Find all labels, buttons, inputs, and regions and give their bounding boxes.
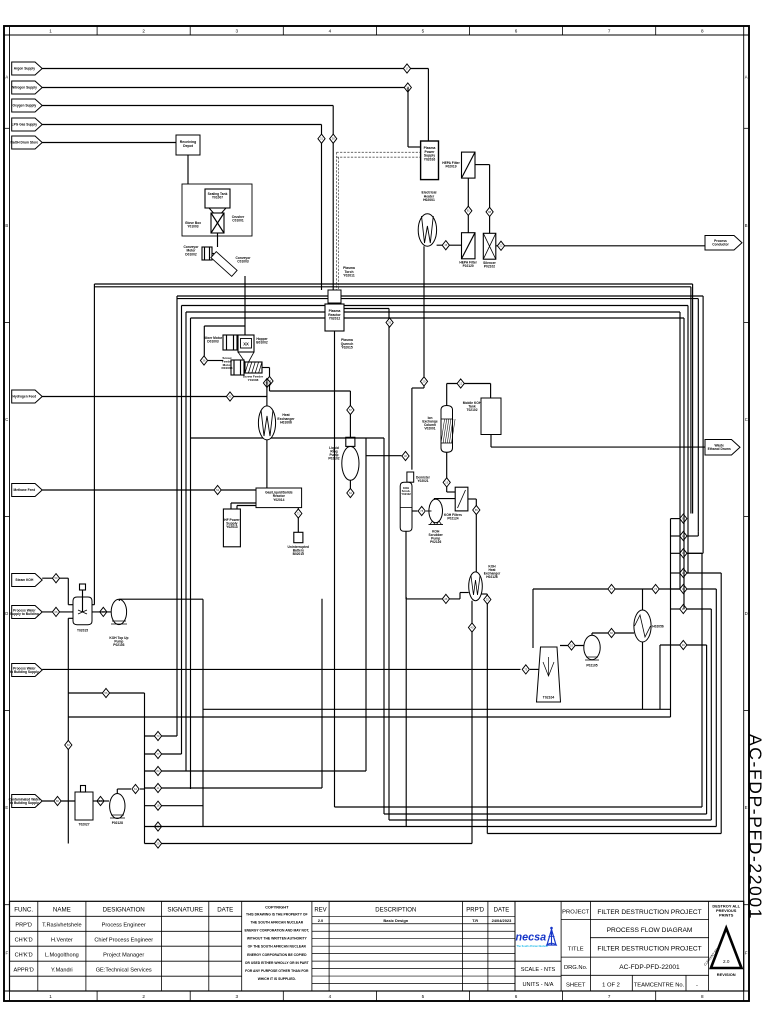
svg-text:C: C bbox=[745, 417, 748, 422]
svg-text:FILTER DESTRUCTION PROJECT: FILTER DESTRUCTION PROJECT bbox=[597, 946, 701, 953]
svg-text:GE:Technical Services: GE:Technical Services bbox=[96, 967, 152, 973]
svg-text:Y02015: Y02015 bbox=[341, 346, 353, 350]
svg-text:SHEET: SHEET bbox=[566, 983, 586, 989]
svg-text:B: B bbox=[5, 223, 8, 228]
svg-text:1: 1 bbox=[49, 994, 52, 999]
svg-text:2: 2 bbox=[142, 28, 145, 33]
svg-text:3: 3 bbox=[235, 994, 238, 999]
svg-text:AC-FDP-PFD-22001: AC-FDP-PFD-22001 bbox=[619, 964, 680, 971]
svg-text:Project Manager: Project Manager bbox=[103, 952, 144, 958]
svg-text:P02124: P02124 bbox=[447, 517, 458, 521]
svg-text:T.R: T.R bbox=[472, 918, 478, 923]
svg-text:THIS DRAWING IS THE PROPERTY O: THIS DRAWING IS THE PROPERTY OF bbox=[246, 913, 308, 917]
svg-text:P02128: P02128 bbox=[112, 821, 123, 825]
svg-text:B01002: B01002 bbox=[256, 341, 268, 345]
svg-text:8: 8 bbox=[701, 28, 704, 33]
svg-text:7: 7 bbox=[608, 28, 611, 33]
svg-text:ENERGY CORPORATION BE COPIED: ENERGY CORPORATION BE COPIED bbox=[247, 953, 307, 957]
svg-text:DATE: DATE bbox=[217, 907, 233, 914]
svg-text:2.0: 2.0 bbox=[318, 918, 324, 923]
svg-text:PRP'D: PRP'D bbox=[15, 923, 32, 929]
svg-text:1 OF 2: 1 OF 2 bbox=[602, 983, 620, 989]
svg-text:7: 7 bbox=[608, 994, 611, 999]
svg-text:4: 4 bbox=[329, 28, 332, 33]
svg-text:WHICH IT IS SUPPLIED.: WHICH IT IS SUPPLIED. bbox=[258, 977, 296, 981]
svg-text:NaOH Drum Store: NaOH Drum Store bbox=[11, 141, 39, 145]
svg-text:WITHOUT THE WRITTEN AUTHORITY: WITHOUT THE WRITTEN AUTHORITY bbox=[247, 937, 308, 941]
svg-text:TITLE: TITLE bbox=[568, 947, 584, 953]
svg-text:F02019: F02019 bbox=[445, 165, 456, 169]
svg-text:3: 3 bbox=[235, 28, 238, 33]
svg-text:SIGNATURE: SIGNATURE bbox=[167, 907, 203, 914]
svg-text:B: B bbox=[745, 223, 748, 228]
svg-text:NAME: NAME bbox=[53, 907, 71, 914]
svg-text:to Building Supply: to Building Supply bbox=[10, 801, 39, 805]
svg-text:T02027: T02027 bbox=[78, 823, 89, 827]
svg-text:TEAMCENTRE No.: TEAMCENTRE No. bbox=[634, 983, 685, 989]
svg-text:Methane Feed: Methane Feed bbox=[14, 488, 36, 492]
svg-text:P02102: P02102 bbox=[328, 457, 339, 461]
svg-text:Y02011: Y02011 bbox=[343, 274, 355, 278]
svg-text:Ethanol Drums: Ethanol Drums bbox=[708, 447, 731, 451]
svg-text:Y02012: Y02012 bbox=[329, 317, 341, 321]
svg-text:SCALE - NTS: SCALE - NTS bbox=[521, 967, 556, 973]
svg-text:PROCESS FLOW DIAGRAM: PROCESS FLOW DIAGRAM bbox=[607, 927, 693, 934]
svg-text:DESCRIPTION: DESCRIPTION bbox=[375, 908, 416, 914]
svg-text:2.0: 2.0 bbox=[723, 959, 730, 964]
svg-text:Y02016: Y02016 bbox=[424, 157, 436, 161]
svg-text:LPG Gas Supply: LPG Gas Supply bbox=[12, 123, 38, 127]
svg-text:AC-FDP-PFD-22001: AC-FDP-PFD-22001 bbox=[746, 734, 766, 920]
svg-text:Hydrogen Feed: Hydrogen Feed bbox=[13, 395, 37, 399]
svg-text:XX: XX bbox=[243, 342, 249, 347]
svg-text:CH'K'D: CH'K'D bbox=[15, 938, 33, 944]
svg-text:Oxygen Supply: Oxygen Supply bbox=[13, 104, 37, 108]
svg-text:PROJECT: PROJECT bbox=[562, 910, 590, 916]
svg-text:Y02021: Y02021 bbox=[417, 479, 428, 483]
svg-text:The South African Nuclear: The South African Nuclear bbox=[517, 945, 548, 948]
svg-text:F: F bbox=[745, 950, 748, 955]
svg-text:Depot: Depot bbox=[183, 144, 194, 148]
svg-text:2: 2 bbox=[142, 994, 145, 999]
svg-text:UNITS - N/A: UNITS - N/A bbox=[522, 982, 553, 988]
svg-text:Supply to Building: Supply to Building bbox=[10, 612, 39, 616]
svg-text:P02102: P02102 bbox=[484, 265, 495, 269]
svg-text:H02056: H02056 bbox=[652, 625, 664, 629]
svg-text:Conductor: Conductor bbox=[712, 243, 729, 247]
svg-text:Process Engineer: Process Engineer bbox=[102, 923, 146, 929]
svg-text:4: 4 bbox=[329, 994, 332, 999]
svg-text:H.Venter: H.Venter bbox=[51, 938, 73, 944]
svg-text:24/04/2023: 24/04/2023 bbox=[492, 918, 513, 923]
svg-text:T02102: T02102 bbox=[466, 408, 477, 412]
svg-text:E: E bbox=[5, 805, 8, 810]
svg-text:H02126: H02126 bbox=[486, 575, 498, 579]
svg-text:-: - bbox=[696, 983, 698, 989]
svg-text:P02103: P02103 bbox=[113, 643, 124, 647]
svg-text:REV: REV bbox=[314, 908, 326, 914]
svg-text:Y.Mandri: Y.Mandri bbox=[51, 967, 73, 973]
svg-text:Y01008: Y01008 bbox=[248, 378, 259, 382]
svg-text:C01001: C01001 bbox=[232, 219, 244, 223]
svg-text:D01003: D01003 bbox=[207, 340, 219, 344]
svg-text:T02104: T02104 bbox=[543, 696, 555, 700]
svg-text:B02015: B02015 bbox=[293, 552, 305, 556]
svg-text:ENERGY CORPORATION AND MAY NOT: ENERGY CORPORATION AND MAY NOT, bbox=[244, 929, 309, 933]
svg-text:5: 5 bbox=[422, 28, 425, 33]
svg-text:DATE: DATE bbox=[494, 908, 510, 914]
svg-text:DRG.No.: DRG.No. bbox=[564, 965, 588, 971]
svg-text:OR USED EITHER WHOLLY OR IN PA: OR USED EITHER WHOLLY OR IN PART bbox=[245, 961, 310, 965]
svg-text:H02001: H02001 bbox=[423, 198, 435, 202]
svg-text:T.Rasivhetshele: T.Rasivhetshele bbox=[42, 923, 82, 929]
svg-text:D01002: D01002 bbox=[185, 252, 197, 256]
svg-text:6: 6 bbox=[515, 28, 518, 33]
svg-text:8: 8 bbox=[701, 994, 704, 999]
svg-text:Nitrogen Supply: Nitrogen Supply bbox=[12, 86, 37, 90]
svg-text:THE SOUTH AFRICAN NUCLEAR: THE SOUTH AFRICAN NUCLEAR bbox=[250, 921, 303, 925]
svg-text:Steam KOH: Steam KOH bbox=[15, 578, 34, 582]
svg-text:6: 6 bbox=[515, 994, 518, 999]
svg-text:V02001: V02001 bbox=[424, 427, 435, 431]
svg-text:FUNC.: FUNC. bbox=[14, 907, 33, 914]
svg-text:1: 1 bbox=[49, 28, 52, 33]
svg-text:C: C bbox=[5, 417, 8, 422]
svg-text:A: A bbox=[5, 75, 8, 80]
svg-text:F02120: F02120 bbox=[463, 264, 474, 268]
svg-text:Y02013: Y02013 bbox=[226, 525, 238, 529]
svg-text:T02015: T02015 bbox=[77, 629, 88, 633]
svg-text:D: D bbox=[745, 611, 748, 616]
svg-text:H01006: H01006 bbox=[280, 421, 292, 425]
svg-text:FILTER DESTRUCTION PROJECT: FILTER DESTRUCTION PROJECT bbox=[597, 909, 701, 916]
svg-text:F: F bbox=[6, 950, 9, 955]
svg-text:C01003: C01003 bbox=[237, 260, 249, 264]
svg-text:PRP'D: PRP'D bbox=[466, 908, 484, 914]
svg-text:P02126: P02126 bbox=[430, 540, 441, 544]
svg-text:L.Mogolthong: L.Mogolthong bbox=[45, 952, 79, 958]
svg-text:DESIGNATION: DESIGNATION bbox=[103, 907, 145, 914]
svg-text:necsa: necsa bbox=[516, 932, 547, 944]
svg-text:to Building Supply: to Building Supply bbox=[10, 670, 39, 674]
svg-text:Y02014: Y02014 bbox=[273, 498, 284, 502]
svg-text:Chief Process Engineer: Chief Process Engineer bbox=[94, 938, 153, 944]
svg-text:FOR ANY PURPOSE OTHER THAN FOR: FOR ANY PURPOSE OTHER THAN FOR bbox=[245, 969, 309, 973]
svg-text:REVISION: REVISION bbox=[717, 972, 736, 977]
svg-text:COPYRIGHT: COPYRIGHT bbox=[265, 905, 289, 910]
svg-text:A: A bbox=[745, 75, 748, 80]
svg-text:D: D bbox=[5, 611, 8, 616]
svg-text:Argon Supply: Argon Supply bbox=[14, 67, 35, 71]
svg-text:5: 5 bbox=[422, 994, 425, 999]
svg-text:Y02102: Y02102 bbox=[401, 492, 411, 496]
svg-text:OF THE SOUTH AFRICAN NUCLEAR: OF THE SOUTH AFRICAN NUCLEAR bbox=[248, 945, 307, 949]
svg-text:P02105: P02105 bbox=[586, 664, 597, 668]
svg-text:Y01007: Y01007 bbox=[212, 196, 223, 200]
svg-text:Basic Design: Basic Design bbox=[383, 918, 408, 923]
svg-text:APPR'D: APPR'D bbox=[13, 967, 33, 973]
svg-text:CH'K'D: CH'K'D bbox=[15, 952, 33, 958]
svg-text:PRINTS: PRINTS bbox=[719, 912, 734, 917]
svg-text:Y01003: Y01003 bbox=[187, 225, 198, 229]
